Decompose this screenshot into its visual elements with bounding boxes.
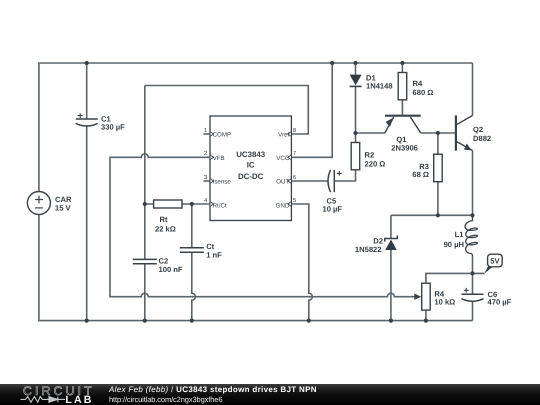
net flag 5V [484,254,502,273]
wire Q2 base [438,132,455,134]
svg-text:2N3906: 2N3906 [391,143,418,152]
pin 7 marker [288,155,292,160]
capacitor C5 [328,170,342,192]
svg-text:1: 1 [204,127,207,134]
IC pin numbers [204,127,297,204]
pin 1 marker [210,132,214,137]
svg-text:90 µH: 90 µH [444,240,464,249]
wire C1 bottom column [86,127,88,321]
wire D2 cathode lead [390,215,392,238]
svg-text:LAB: LAB [65,394,93,405]
pin 3 marker [210,179,214,184]
resistor R3 68 [434,154,443,182]
svg-text:VFB: VFB [213,155,225,162]
svg-text:2: 2 [204,150,207,157]
diode D2 1N5822 schottky [385,235,398,250]
svg-text:330 µF: 330 µF [101,123,125,132]
voltage source V1 CAR [27,192,50,215]
CircuitLab logo [0,384,100,405]
wire Q2 collector column [472,63,474,115]
svg-text:7: 7 [293,150,296,157]
pin 4 marker [210,202,214,207]
svg-text:DC-DC: DC-DC [238,172,264,181]
wire 5V node to pot top [426,273,485,283]
wire VFB feedback path with hops [110,154,415,297]
IC U1 UC3843 box [210,116,291,221]
IC pin names [213,131,290,209]
wire OUT pin 6 to C5 [291,180,327,182]
wire Vref pin 8 to node column [145,86,308,135]
svg-text:10 µF: 10 µF [323,205,343,214]
svg-text:1N5822: 1N5822 [355,245,382,254]
wire VCC drop from rail to pin 7 [291,63,332,157]
pin 5 marker [288,202,292,207]
pin 2 marker [210,155,214,160]
svg-text:10 kΩ: 10 kΩ [434,298,455,307]
svg-text:L1: L1 [455,230,465,239]
wire Ct column lower with hop over feedback [192,252,196,320]
capacitor C2 [133,259,157,263]
wire GND pin 5 to bottom rail with hop [291,204,312,321]
svg-text:100 nF: 100 nF [159,265,183,274]
svg-text:GND: GND [276,202,290,209]
wire left bottom column and bottom rail [39,214,473,321]
svg-text:470 µF: 470 µF [488,298,512,307]
svg-text:Isense: Isense [213,179,232,186]
wire D2 anode column to rail [390,250,392,321]
wire Ct column upper [191,204,193,248]
wire R3 bottom lead [437,182,439,216]
transistor Q2 D882 NPN [456,115,473,150]
wire Q2 emitter column [472,150,474,215]
svg-text:1N4148: 1N4148 [366,82,393,91]
pin 8 marker [288,132,292,137]
svg-text:R2: R2 [365,151,375,160]
svg-text:IC: IC [247,160,255,169]
svg-text:5V: 5V [490,256,500,265]
transistor Q1 2N3906 PNP [385,116,421,133]
svg-text:68 Ω: 68 Ω [412,170,429,179]
svg-text:Vref: Vref [278,131,289,138]
resistor R4 680 [398,73,407,100]
svg-text:D2: D2 [373,236,383,245]
svg-text:Rt/Ct: Rt/Ct [213,202,227,209]
svg-text:Q2: Q2 [473,125,483,134]
svg-text:Rt: Rt [160,215,168,224]
svg-text:8: 8 [293,127,297,134]
capacitor Ct [180,248,204,252]
wire pot bottom lead [425,310,427,321]
wire C1 top lead [86,63,88,119]
svg-text:D882: D882 [473,134,491,143]
diode D1 1N4148 [350,75,362,87]
wire C6 bottom lead [472,302,474,321]
svg-text:VCC: VCC [276,155,290,162]
capacitor C6 [462,288,484,301]
svg-text:COMP: COMP [213,131,232,138]
wire top rail and left column [39,63,473,192]
wire D1 anode from rail [355,63,357,75]
svg-text:OUT: OUT [276,179,289,186]
svg-text:680 Ω: 680 Ω [413,88,434,97]
svg-text:1 nF: 1 nF [206,250,222,259]
wire L1 bottom lead [472,256,474,274]
wire C5 plus side to R2 bottom [334,170,355,181]
wire pin 3 stub [204,180,211,182]
wire column x=144.8 lower (C2 bottom to rail) [144,264,146,321]
svg-text:220 Ω: 220 Ω [365,160,386,169]
svg-text:15 V: 15 V [55,204,72,213]
wire switch node [391,214,473,216]
pin 6 marker [288,179,292,184]
wire D1 cathode to node A [355,86,357,133]
svg-text:4: 4 [204,197,208,204]
wire node A to Q1 emitter [356,132,385,134]
wire R4 680 bottom to Q1 base [401,100,403,115]
resistor R2 220 [351,143,360,170]
potentiometer R4 10k [414,283,430,310]
wire Q1 collector to Q2 base node [421,132,438,134]
wire column x=144.8 upper (Vref to Rt left) [144,86,146,260]
inductor L1 [465,215,478,256]
wire R3 top lead [437,133,439,154]
svg-text:R4: R4 [413,79,423,88]
wire C6 top lead [472,273,474,294]
svg-text:22 kΩ: 22 kΩ [155,225,176,234]
wire R2 top lead [355,133,357,143]
IC U1 text [236,150,266,181]
svg-text:5: 5 [293,197,297,204]
svg-text:3: 3 [204,174,208,181]
wire R4 680 top lead [401,63,403,73]
svg-text:6: 6 [293,174,297,181]
capacitor C1 [76,113,98,126]
resistor Rt 22k horizontal [145,200,210,208]
svg-text:UC3843: UC3843 [236,150,266,159]
wire pin 1 stub [204,133,211,135]
